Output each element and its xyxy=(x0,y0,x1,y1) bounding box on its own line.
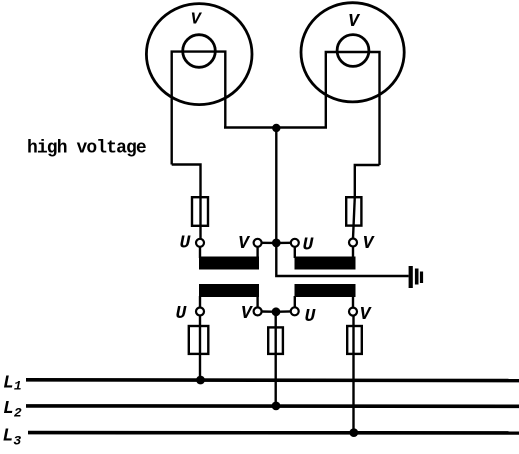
wire: U2p stub to winding xyxy=(294,247,296,258)
terminal V primary T2 xyxy=(349,239,357,247)
wire: V1s stub from winding xyxy=(256,296,258,307)
wire: V1s to junction xyxy=(262,310,273,313)
transformer T1 primary winding xyxy=(199,257,259,270)
terminal V secondary T2 xyxy=(349,308,357,316)
transformer T2 primary winding xyxy=(295,257,356,270)
voltmeter V1 coil circle xyxy=(183,35,216,68)
node: secondary common junction xyxy=(272,307,281,316)
svg-text:V: V xyxy=(363,234,376,254)
fuse F2 xyxy=(346,197,361,225)
line L3 xyxy=(28,431,519,435)
wire: V1p to junction xyxy=(262,242,273,244)
svg-text:U: U xyxy=(305,307,317,327)
svg-text:U: U xyxy=(180,234,192,254)
wire: through fuse F2 xyxy=(353,197,355,239)
node: tap on L1 xyxy=(196,376,205,385)
terminal U primary T1 xyxy=(196,239,204,247)
wire: V1 left lead jog to fuse F1 xyxy=(172,165,201,198)
wire: V2p stub to winding xyxy=(352,247,354,259)
wire: V2 leads staple xyxy=(326,52,380,165)
svg-text:V: V xyxy=(238,234,251,254)
svg-text:high voltage: high voltage xyxy=(27,139,146,159)
wire: primary junction to earth xyxy=(276,243,408,276)
node: tap on L3 xyxy=(349,428,358,437)
wire: U1s down through fuse F3 to L1 xyxy=(199,316,201,381)
wire: U2s stub from winding xyxy=(294,296,296,307)
transformer T2 secondary winding xyxy=(295,284,356,297)
fuse F3 xyxy=(189,326,209,354)
voltmeter V2 coil circle xyxy=(337,35,369,67)
wire: secondary junction down through fuse F4 to L2 xyxy=(275,313,277,407)
node: meters common junction xyxy=(272,124,280,132)
fuse F5 xyxy=(347,326,362,354)
terminal U secondary T2 xyxy=(291,307,299,315)
svg-text:V: V xyxy=(348,12,361,32)
svg-text:U: U xyxy=(303,236,315,256)
terminal U primary T2 xyxy=(291,239,299,247)
fuse F4 xyxy=(268,327,283,354)
voltmeter V2 outer circle xyxy=(301,3,404,102)
svg-text:V: V xyxy=(191,11,203,30)
svg-text:L3: L3 xyxy=(3,427,22,449)
wire: V1 leads staple xyxy=(172,52,226,165)
line L1 xyxy=(26,378,519,382)
wire: V2 right lead jog to fuse F2 xyxy=(355,165,380,197)
svg-text:V: V xyxy=(241,304,254,324)
wire: horizontal between meters xyxy=(224,126,327,128)
wire: V2s down through fuse F5 to L3 xyxy=(352,316,354,433)
wire: center vertical to primary junction xyxy=(275,128,277,244)
svg-text:L2: L2 xyxy=(3,399,22,421)
ground symbol xyxy=(409,266,424,288)
fuse F1 xyxy=(192,197,208,226)
terminal V primary T1 xyxy=(254,239,262,247)
wire: junction to U2s xyxy=(280,310,291,313)
wire: V1p stub to winding xyxy=(256,247,258,258)
line L2 xyxy=(26,404,519,408)
wire: U1p stub to winding xyxy=(199,247,201,258)
node: tap on L2 xyxy=(272,402,281,411)
node: primary common junction xyxy=(272,239,281,248)
svg-text:V: V xyxy=(360,305,373,325)
wire: U1s stub from winding xyxy=(199,296,201,308)
wire: junction to U2p xyxy=(280,242,291,244)
svg-text:L1: L1 xyxy=(3,373,22,393)
terminal V secondary T1 xyxy=(254,307,262,315)
svg-text:U: U xyxy=(176,304,188,324)
wire: V2s stub from winding xyxy=(352,296,354,308)
wire: through fuse F1 xyxy=(199,197,201,239)
terminal U secondary T1 xyxy=(196,308,204,316)
transformer T1 secondary winding xyxy=(199,284,259,297)
voltmeter V1 outer circle xyxy=(146,4,252,105)
